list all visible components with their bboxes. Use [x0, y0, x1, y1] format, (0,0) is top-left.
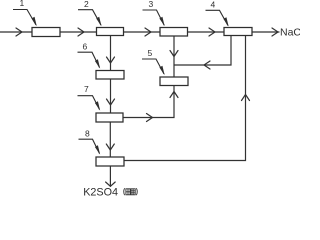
arrowhead into box 7	[107, 99, 115, 105]
arrowhead into box 4	[209, 28, 215, 36]
arrowhead on box7 wire	[147, 114, 153, 122]
wire box8 down to K2SO4 output	[109, 166, 111, 186]
arrowhead into box 2	[78, 28, 84, 36]
label 7 leader	[78, 96, 100, 110]
label 8 leader	[79, 139, 100, 153]
svg-text:7: 7	[84, 84, 89, 94]
wire box8 right then up into box4 bottom	[124, 36, 246, 161]
label 3 leader	[143, 10, 165, 25]
box 7	[96, 113, 123, 122]
svg-text:NaCl: NaCl	[280, 27, 300, 39]
svg-text:1: 1	[20, 0, 25, 8]
arrowhead up into box 5	[170, 92, 178, 98]
wire box2 to box3	[124, 31, 161, 33]
arrowhead on wire box3 to box5	[170, 51, 178, 57]
box 1	[32, 28, 60, 37]
wire box7 right then up into box5 bottom	[123, 86, 174, 118]
svg-text:5: 5	[148, 48, 153, 58]
K2SO4 chinese annotation (potassium salt)	[124, 188, 138, 195]
arrowhead into box 8	[106, 144, 114, 150]
box 3	[160, 28, 188, 37]
box 2	[97, 28, 124, 36]
arrowhead left on recycle	[204, 61, 210, 69]
label 1 leader	[13, 10, 36, 26]
wire feed input to box 1	[0, 31, 32, 33]
svg-text:3: 3	[149, 0, 154, 9]
arrowhead into box 6	[107, 57, 115, 63]
arrowhead into box 3	[145, 28, 151, 36]
svg-text:6: 6	[83, 42, 88, 52]
label 4 leader	[206, 10, 229, 25]
wire box6 down to box7	[110, 79, 112, 113]
arrowhead NaCl output	[272, 28, 278, 36]
label 5 leader	[142, 59, 164, 74]
wire box2 down to box6	[110, 36, 112, 71]
wire box7 down to box8	[109, 122, 111, 157]
label 6 leader	[78, 52, 100, 67]
wire box3 down to box5	[173, 36, 175, 77]
wire box1 to box2	[60, 31, 97, 33]
svg-text:4: 4	[211, 0, 216, 9]
wire recycle from box4 bottom-left down then left to box5 feed junction	[174, 36, 231, 66]
box 4	[224, 28, 252, 36]
box 6	[96, 71, 124, 80]
arrowhead K2SO4 output	[106, 182, 116, 186]
label 2 leader	[78, 10, 101, 26]
svg-text:K2SO4: K2SO4	[83, 187, 118, 199]
arrowhead up on recycle to box4	[242, 95, 250, 101]
arrowhead into box 1	[16, 28, 22, 36]
wire box4 to NaCl output	[252, 31, 279, 33]
svg-text:2: 2	[84, 0, 89, 9]
box 5	[160, 77, 188, 86]
svg-text:8: 8	[85, 129, 90, 139]
box 8	[96, 157, 124, 166]
wire box3 to box4	[188, 31, 225, 33]
